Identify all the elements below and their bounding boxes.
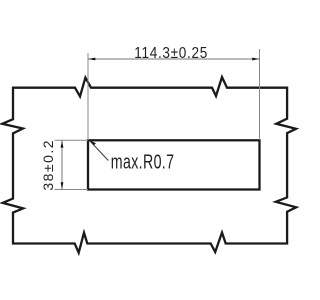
svg-text:114.3±0.25: 114.3±0.25 bbox=[134, 45, 208, 62]
cutout rectangle bbox=[88, 140, 260, 189]
extension line left (x=88) bbox=[87, 53, 89, 140]
top arrowhead bbox=[61, 141, 64, 148]
svg-text:max.R0.7: max.R0.7 bbox=[111, 150, 175, 173]
leader line for max.R0.7 bbox=[90, 141, 108, 161]
vertical dim extension line bottom (y=189.5) bbox=[55, 189, 89, 191]
left arrowhead bbox=[88, 58, 95, 61]
leader arrowhead bbox=[90, 141, 96, 146]
svg-text:38±0.2: 38±0.2 bbox=[40, 139, 56, 191]
bottom arrowhead bbox=[61, 182, 64, 189]
outer panel outline with break symbols bbox=[2, 77, 296, 253]
right arrowhead bbox=[252, 58, 259, 61]
vertical dimension line bbox=[61, 140, 63, 189]
horizontal dimension line bbox=[88, 58, 260, 60]
vertical dim extension line top (y=140.3) bbox=[55, 139, 89, 141]
extension line right (x=259.5) bbox=[259, 49, 261, 140]
